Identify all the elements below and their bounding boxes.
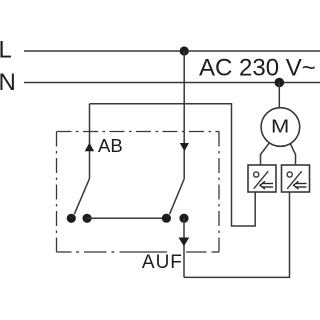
wire from N junction to motor (278, 83, 280, 109)
relay K1 pivot circle (254, 172, 259, 177)
junction dot on L (180, 46, 189, 55)
switch S1 left contact dot (67, 214, 76, 223)
arrow down on S2 input (180, 143, 189, 151)
wire N line (24, 82, 320, 84)
switch S2 lever (170, 179, 185, 215)
svg-text:L: L (0, 37, 12, 64)
junction dot on N (275, 78, 285, 88)
wire L line (24, 50, 320, 52)
relay contact K1 box (248, 165, 276, 192)
relay K2 contact lever (287, 171, 302, 189)
relay K1 contact lever (254, 171, 269, 189)
motor M1 (261, 108, 300, 147)
svg-text:M: M (271, 117, 289, 137)
svg-text:N: N (0, 69, 16, 96)
dashed enclosure right border (218, 132, 220, 253)
wire AUF return to relay K2 (184, 192, 290, 277)
arrow down AUF (179, 238, 190, 247)
svg-text:AB: AB (98, 135, 123, 156)
switch S1 lever (74, 179, 89, 215)
arrow up AB (85, 143, 94, 151)
svg-text:AUF: AUF (142, 252, 183, 273)
switch S2 left contact dot (162, 214, 171, 223)
wire S1 to S2 common (87, 217, 166, 219)
switch S1 right contact dot (83, 214, 92, 223)
svg-text:AC 230 V~: AC 230 V~ (199, 55, 316, 82)
relay K2 pivot circle (287, 172, 292, 177)
relay K2 release arrow (294, 181, 307, 189)
relay K1 release arrow (260, 181, 273, 189)
wire relay K1 output loop to switch S1 (90, 104, 256, 226)
dashed enclosure left border (56, 132, 58, 253)
wire switch S1 input drop (89, 104, 91, 179)
switch S2 right contact dot (179, 214, 188, 223)
wire from L junction to switch S2 (183, 51, 185, 179)
wire motor right leg to relay K2 (290, 144, 295, 166)
dashed enclosure bottom border (57, 251, 220, 253)
wire S2 output down (183, 218, 185, 277)
wire motor left leg to relay K1 (261, 143, 270, 165)
dashed enclosure top border (57, 131, 220, 133)
relay contact K2 box (282, 165, 310, 192)
